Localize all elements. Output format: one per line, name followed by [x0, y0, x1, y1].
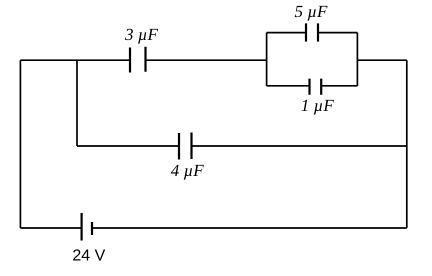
wire top left segment	[20, 59, 130, 61]
wire parallel-loop top right	[318, 32, 357, 34]
wire right vertical	[406, 60, 408, 228]
battery V1 short plate	[91, 222, 93, 235]
wire parallel-loop left edge	[266, 33, 268, 86]
capacitor C2 5uF plates	[306, 23, 318, 41]
svg-text:1 µF: 1 µF	[301, 96, 335, 115]
wire bottom right segment	[92, 227, 407, 229]
svg-text:24 V: 24 V	[72, 248, 105, 265]
svg-text:5 µF: 5 µF	[295, 2, 329, 21]
wire left vertical	[19, 60, 21, 228]
wire middle branch right	[192, 145, 407, 147]
wire parallel-loop bottom right	[321, 85, 357, 87]
wire parallel-loop right edge	[356, 33, 358, 86]
wire bottom left segment	[20, 227, 81, 229]
wire top middle segment	[146, 59, 267, 61]
battery V1 long plate	[80, 213, 82, 241]
wire parallel-loop bottom left	[267, 85, 310, 87]
wire top right segment	[357, 59, 406, 61]
capacitor C4 4uF plates	[179, 133, 192, 160]
svg-text:4 µF: 4 µF	[171, 161, 205, 180]
wire middle branch left	[77, 145, 179, 147]
wire parallel-loop top left	[267, 32, 306, 34]
svg-text:3 µF: 3 µF	[124, 25, 159, 44]
capacitor C3 1uF plates	[310, 79, 322, 95]
wire inner vertical	[76, 60, 78, 146]
capacitor C1 3uF plates	[130, 47, 146, 73]
